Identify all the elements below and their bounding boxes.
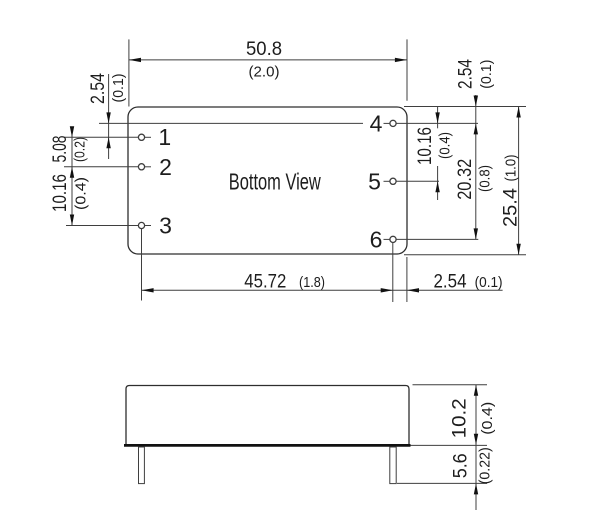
svg-text:(0.4): (0.4) [436,132,453,159]
svg-text:45.72: 45.72 [244,272,286,293]
svg-text:50.8: 50.8 [246,39,282,60]
svg-text:1: 1 [158,124,171,150]
svg-text:6: 6 [370,226,383,252]
dim 45.72 (1.8) + 2.54 (0.1) bottom [141,229,143,301]
svg-text:(0.22): (0.22) [477,447,494,484]
base extension [411,444,488,446]
dim 2.54 (0.1) top-left [108,74,110,159]
bottom edge extension right [404,254,526,256]
svg-text:(0.1): (0.1) [475,274,503,291]
svg-text:(1.0): (1.0) [502,154,519,181]
svg-text:10.2: 10.2 [450,398,471,438]
svg-text:2.54: 2.54 [88,73,109,104]
dim 50.8 (2.0) top [128,39,130,106]
side body [126,386,409,445]
pin 3 [66,225,138,227]
svg-text:20.32: 20.32 [455,159,476,200]
top edge extension side view [413,384,488,386]
svg-text:25.4: 25.4 [500,188,521,227]
svg-text:5.6: 5.6 [450,453,471,478]
svg-text:10.16: 10.16 [415,127,436,165]
svg-text:5: 5 [368,168,381,194]
top edge extension right [404,106,526,108]
thick base line [124,444,411,447]
svg-text:(1.8): (1.8) [299,274,325,291]
pin 2 [64,166,138,168]
svg-text:2.54: 2.54 [456,59,477,89]
dim 10.16 (0.4) right [437,107,439,128]
svg-text:10.16: 10.16 [50,174,71,212]
svg-text:(0.1): (0.1) [478,60,495,89]
svg-text:(0.4): (0.4) [72,177,89,210]
svg-text:Bottom View: Bottom View [229,169,321,195]
dim 25.4 (1.0) far right [518,107,520,255]
package body outline (bottom view) [128,107,407,254]
svg-text:3: 3 [159,213,172,239]
right pin side view [390,447,396,484]
pin 4 row reference line [99,122,363,124]
svg-text:(0.1): (0.1) [110,73,127,102]
pin 6 [384,238,390,240]
pin 4 [384,122,390,124]
dim 10.2 (0.4) / 5.6 (0.22) side [475,385,477,510]
svg-text:(0.2): (0.2) [72,137,89,162]
svg-text:4: 4 [370,110,383,136]
svg-text:(0.4): (0.4) [479,402,496,435]
pin 5 [384,180,390,182]
pin bottom extension [397,482,487,484]
dim 2.54 (0.1) top-right + 20.32 (0.8) [475,95,477,239]
svg-text:(0.8): (0.8) [477,165,494,192]
svg-text:2: 2 [159,154,172,180]
left pin side view [139,447,145,484]
dim 5.08 / 10.16 left [71,128,73,226]
svg-text:5.08: 5.08 [50,136,71,163]
svg-text:2.54: 2.54 [434,272,467,293]
svg-text:(2.0): (2.0) [249,64,280,81]
pin 1 [64,136,138,138]
